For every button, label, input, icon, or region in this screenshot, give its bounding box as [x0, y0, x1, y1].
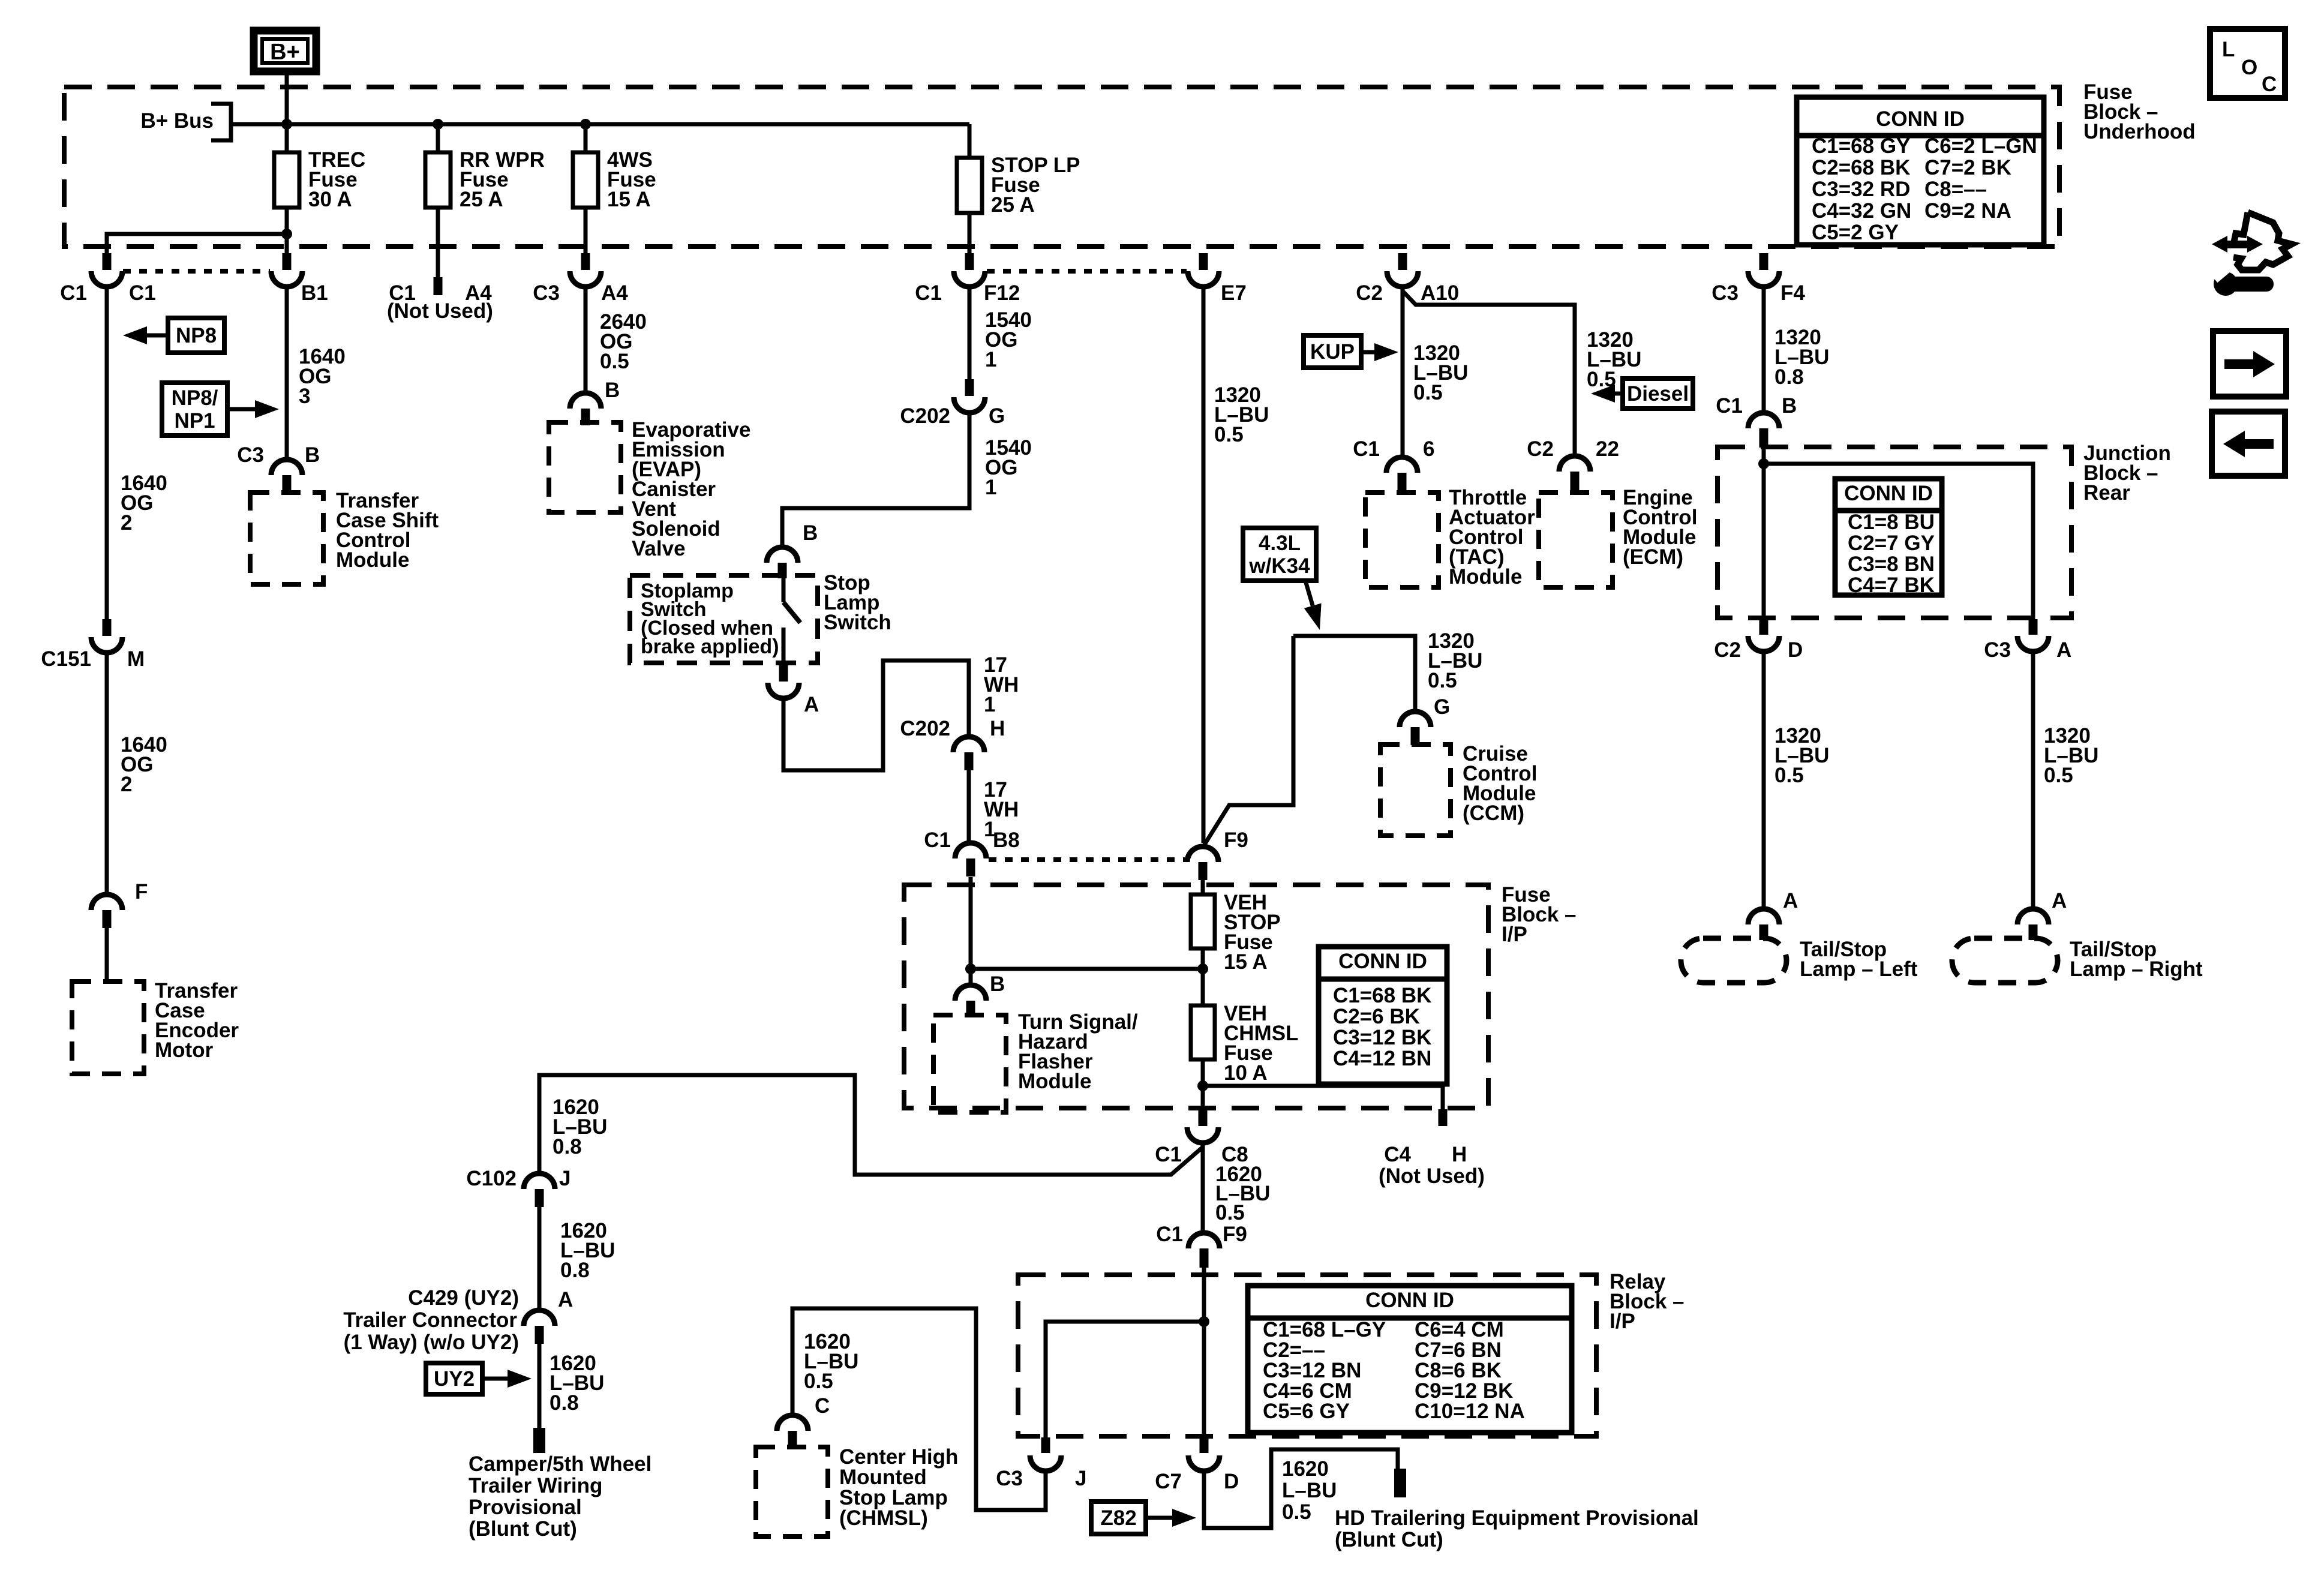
svg-text:B: B — [305, 443, 320, 467]
switch blade — [783, 602, 800, 623]
wire J to CHMSL — [792, 1308, 1046, 1510]
label wire 1620 L-BU 0.8 camper — [550, 1352, 604, 1415]
transfer case shift control module label — [336, 489, 439, 572]
svg-text:C1=68 GY: C1=68 GY — [1812, 134, 1910, 158]
svg-text:1620: 1620 — [1282, 1457, 1329, 1481]
svg-text:F12: F12 — [984, 281, 1020, 305]
svg-text:C2=6 BK: C2=6 BK — [1333, 1005, 1420, 1028]
relay conn id table — [1248, 1286, 1572, 1433]
label C151 M — [41, 647, 145, 671]
transfer case shift control module box — [250, 493, 323, 584]
tail stop lamp right label — [2070, 938, 2203, 981]
svg-text:15 A: 15 A — [607, 188, 651, 211]
svg-text:NP8: NP8 — [176, 324, 217, 347]
fuse VEH STOP 15A — [1191, 894, 1215, 948]
node bus-4WS junction — [580, 119, 591, 130]
connector C3 A4 — [570, 253, 601, 287]
fuse TREC label — [308, 148, 365, 211]
svg-text:D: D — [1788, 638, 1803, 662]
label UY2 box — [426, 1363, 482, 1394]
label Z82 box — [1091, 1502, 1146, 1534]
label NP8/NP1 box — [162, 383, 227, 436]
svg-text:C1: C1 — [60, 281, 87, 305]
svg-text:Lamp – Left: Lamp – Left — [1800, 957, 1918, 981]
svg-text:HD Trailering Equipment Provis: HD Trailering Equipment Provisional — [1335, 1506, 1699, 1530]
connector C1 F12 — [954, 253, 985, 287]
wire A to tail lamp right — [2031, 652, 2035, 910]
svg-text:C1: C1 — [1353, 437, 1380, 461]
wire H to B8 — [967, 770, 971, 843]
wire A4 to EVAP — [584, 287, 588, 393]
label C102 J — [466, 1167, 571, 1190]
svg-text:CONN ID: CONN ID — [1844, 482, 1933, 505]
svg-text:B: B — [1782, 394, 1797, 418]
svg-text:C4=12 BN: C4=12 BN — [1333, 1047, 1431, 1070]
flasher module label — [1018, 1010, 1138, 1093]
svg-text:2: 2 — [121, 511, 132, 535]
label wire 1320 L-BU 0.8 — [1774, 326, 1829, 389]
fuse block underhood dashed box — [64, 87, 2059, 247]
svg-text:C2: C2 — [1714, 638, 1741, 662]
label wire 17 WH 1 lower — [984, 778, 1019, 841]
svg-text:L: L — [2222, 38, 2235, 61]
connector C2 D — [1748, 619, 1779, 652]
label wire 1320 L-BU 0.5 ECM — [1587, 328, 1641, 391]
connector B EVAP — [570, 393, 601, 425]
wire STOP LP fuse to F12 — [968, 213, 972, 253]
svg-text:Valve: Valve — [632, 537, 686, 560]
svg-text:0.8: 0.8 — [560, 1259, 590, 1282]
svg-text:25 A: 25 A — [460, 188, 503, 211]
wire RR WPR fuse top — [436, 124, 440, 152]
arrow NP8 left — [123, 326, 168, 344]
label B stop lamp switch — [803, 521, 818, 545]
EVAP label — [632, 418, 750, 560]
label wire 1320 L-BU 0.5 left lamp — [1774, 724, 1829, 787]
svg-text:C: C — [2262, 73, 2277, 96]
svg-text:KUP: KUP — [1310, 340, 1355, 364]
HD blunt cut stub — [1394, 1469, 1406, 1497]
svg-text:C1: C1 — [924, 828, 951, 852]
svg-text:G: G — [989, 404, 1005, 428]
svg-text:(CCM): (CCM) — [1463, 801, 1524, 825]
svg-text:G: G — [1434, 695, 1450, 719]
wire junction block bus — [1764, 464, 2033, 619]
label C1 A4 not used — [387, 281, 493, 323]
wire relay J branch — [1046, 1322, 1204, 1437]
svg-text:Underhood: Underhood — [2083, 120, 2196, 143]
label A tail right — [2052, 889, 2067, 912]
switch contact upper — [782, 578, 786, 602]
diagonal CCM branch merge — [0, 0, 1, 1]
HD trailering label — [1335, 1506, 1699, 1551]
ECM module label — [1623, 486, 1697, 569]
label wire 1320 L-BU 0.5 CCM — [1428, 629, 1482, 692]
stop lamp switch right label — [824, 571, 891, 634]
wire CHMSL fuse down — [1201, 1059, 1205, 1109]
label KUP box — [1304, 335, 1361, 368]
EVAP canister vent solenoid valve box — [549, 422, 621, 512]
svg-text:B1: B1 — [301, 281, 328, 305]
svg-text:B+ Bus: B+ Bus — [140, 109, 214, 133]
tail stop lamp left box — [1681, 938, 1786, 983]
svg-text:Diesel: Diesel — [1627, 382, 1689, 406]
label C1 B junction — [1716, 394, 1797, 418]
svg-text:C6=2 L–GN: C6=2 L–GN — [1924, 134, 2037, 158]
svg-text:30 A: 30 A — [308, 188, 352, 211]
svg-text:Trailer Wiring: Trailer Wiring — [469, 1474, 602, 1497]
connector F — [91, 894, 122, 928]
svg-text:(1 Way) (w/o UY2): (1 Way) (w/o UY2) — [344, 1331, 519, 1354]
svg-text:I/P: I/P — [1502, 923, 1527, 946]
svg-text:Lamp – Right: Lamp – Right — [2070, 957, 2203, 981]
fuse STOP LP 25A — [957, 158, 982, 213]
svg-text:H: H — [990, 717, 1005, 740]
svg-text:H: H — [1452, 1143, 1467, 1166]
label B flasher — [990, 972, 1005, 996]
connector C3 F4 — [1748, 253, 1779, 287]
label C429 trailer connector — [343, 1286, 573, 1354]
wire B+ feed into fuse block — [285, 71, 289, 152]
wire C8 to relay F9 — [1201, 1143, 1205, 1231]
label F9 fuse block — [1224, 828, 1248, 852]
label C1 F9 relay — [1156, 1223, 1247, 1246]
connector C151 M — [91, 619, 122, 653]
label wire 1640 OG 2 lower — [121, 733, 167, 796]
svg-text:C1: C1 — [915, 281, 942, 305]
label C4 H not used — [1379, 1143, 1485, 1188]
engine control module box — [1539, 493, 1613, 587]
label 4.3L w/K34 box — [1243, 528, 1316, 581]
svg-text:C1: C1 — [1156, 1223, 1183, 1246]
svg-text:CONN ID: CONN ID — [1338, 950, 1427, 973]
B+ Bus bracket — [211, 104, 231, 140]
wire C429 to blunt cut — [538, 1344, 542, 1431]
wire F4 to junction block — [1762, 287, 1766, 413]
svg-text:C3=12 BK: C3=12 BK — [1333, 1026, 1431, 1049]
svg-text:Motor: Motor — [155, 1038, 214, 1062]
arrow 4.3L leader — [1304, 581, 1322, 630]
svg-text:C2: C2 — [1527, 437, 1554, 461]
connector C1 C1 — [91, 253, 122, 287]
arrow NP8/NP1 right — [227, 400, 279, 418]
svg-text:Rear: Rear — [2083, 481, 2130, 505]
connector A stop lamp switch — [768, 665, 799, 698]
svg-text:brake applied): brake applied) — [641, 635, 779, 658]
connector C3 J relay — [1030, 1437, 1061, 1471]
label C1 B8 — [924, 828, 1020, 852]
label C3 B transfer case — [237, 443, 320, 467]
label B EVAP — [605, 379, 620, 402]
connector C3 A — [2017, 619, 2049, 652]
svg-text:B: B — [803, 521, 818, 545]
svg-text:C1: C1 — [1155, 1143, 1182, 1166]
node bus-RRWPR junction — [433, 119, 443, 130]
svg-text:B+: B+ — [270, 40, 300, 65]
svg-text:C2=7 GY: C2=7 GY — [1848, 532, 1935, 555]
connector C7 D relay — [1188, 1437, 1220, 1471]
svg-text:C3: C3 — [996, 1467, 1023, 1490]
svg-text:1: 1 — [985, 476, 996, 499]
label C202 H — [900, 717, 1005, 740]
svg-text:L–BU: L–BU — [1282, 1479, 1337, 1502]
svg-text:O: O — [2241, 56, 2257, 79]
wire 4WS fuse top — [584, 124, 588, 152]
back arrow icon box — [2212, 412, 2285, 476]
svg-text:B: B — [605, 379, 620, 402]
LOC icon box — [2210, 29, 2285, 98]
svg-text:CONN ID: CONN ID — [1876, 107, 1965, 131]
svg-text:Switch: Switch — [824, 611, 891, 634]
label wire 1640 OG 3 — [299, 345, 346, 408]
svg-text:C4: C4 — [1384, 1143, 1411, 1166]
connector C1 B8 — [955, 843, 986, 876]
label wire 1540 OG 1 upper — [985, 308, 1032, 371]
svg-text:C2: C2 — [1356, 281, 1383, 305]
svg-text:1: 1 — [985, 348, 996, 371]
label wire 1620 L-BU 0.8 C102 — [553, 1095, 607, 1158]
svg-text:CONN ID: CONN ID — [1365, 1289, 1454, 1312]
connector C202 G — [954, 379, 985, 413]
relay block IP label — [1610, 1270, 1685, 1333]
svg-text:C202: C202 — [900, 404, 950, 428]
svg-text:Provisional: Provisional — [469, 1496, 582, 1519]
svg-text:C1: C1 — [1716, 394, 1743, 418]
wire VEH STOP to VEH CHMSL — [1201, 948, 1205, 1005]
svg-text:(Not Used): (Not Used) — [1379, 1164, 1485, 1188]
connector C1 F9 relay — [1188, 1233, 1220, 1268]
wire B1 to transfer case module — [285, 287, 289, 460]
svg-text:C4=32 GN: C4=32 GN — [1812, 199, 1911, 223]
node TREC branch junction — [281, 229, 292, 239]
connector C1 F9 fuse block — [1187, 846, 1218, 880]
svg-text:A: A — [558, 1288, 573, 1311]
repair info icon — [2212, 212, 2292, 296]
wire STOP LP fuse drop — [968, 124, 972, 158]
label C3 F4 — [1712, 281, 1805, 305]
label C2 A10 — [1356, 281, 1459, 305]
svg-text:0.5: 0.5 — [2044, 764, 2073, 787]
svg-text:C3: C3 — [237, 443, 264, 467]
cruise control module box — [1380, 745, 1451, 836]
svg-text:I/P: I/P — [1610, 1310, 1635, 1333]
svg-text:F9: F9 — [1224, 828, 1248, 852]
throttle actuator control module box — [1365, 493, 1439, 587]
wire C1 to C151 — [105, 287, 109, 619]
label wire 17 WH 1 upper — [984, 653, 1019, 716]
svg-text:0.5: 0.5 — [1215, 1201, 1245, 1224]
fuse 4WS 15A — [573, 152, 598, 208]
label C2 D — [1714, 638, 1803, 662]
fuse block IP dashed box — [904, 885, 1488, 1108]
label C202 G — [900, 404, 1005, 428]
svg-text:0.8: 0.8 — [550, 1391, 579, 1415]
label A stop lamp switch — [804, 693, 819, 716]
wire A10 to TAC — [1401, 287, 1405, 457]
svg-text:M: M — [127, 647, 145, 671]
label C1 F12 — [915, 281, 1020, 305]
switch contact lower — [782, 628, 786, 665]
connector C2 22 ECM — [1559, 456, 1590, 492]
svg-text:C9=2 NA: C9=2 NA — [1924, 199, 2011, 223]
label F — [135, 880, 148, 903]
svg-text:(Not Used): (Not Used) — [387, 299, 493, 323]
svg-text:A: A — [804, 693, 819, 716]
arrow Z82 right — [1146, 1509, 1196, 1527]
wire F to encoder motor — [105, 928, 109, 983]
svg-text:Module: Module — [1449, 565, 1522, 589]
fuse TREC 30A — [274, 152, 299, 208]
svg-text:F: F — [135, 880, 148, 903]
junction block conn id table — [1835, 479, 1942, 597]
svg-text:0.5: 0.5 — [1428, 669, 1457, 692]
svg-text:A4: A4 — [601, 281, 628, 305]
svg-text:C5=2 GY: C5=2 GY — [1812, 221, 1899, 244]
connector B1 — [271, 253, 302, 287]
label wire 1640 OG 2 upper — [121, 472, 167, 535]
svg-text:(ECM): (ECM) — [1623, 545, 1683, 569]
svg-text:0.5: 0.5 — [1214, 423, 1244, 446]
fuse RR WPR label — [460, 148, 545, 211]
node relay junction — [1199, 1316, 1209, 1327]
wire A10 branch to ECM — [1403, 291, 1575, 456]
svg-text:C4=7 BK: C4=7 BK — [1848, 574, 1935, 597]
label wire 1620 L-BU 0.5 HD — [1282, 1457, 1337, 1524]
svg-text:C10=12 NA: C10=12 NA — [1415, 1400, 1525, 1423]
tail stop lamp right box — [1952, 938, 2058, 983]
svg-text:0.5: 0.5 — [1774, 764, 1804, 787]
camper blunt cut stub — [533, 1428, 545, 1453]
wire TREC branch left — [107, 234, 287, 253]
fuse RR WPR 25A — [425, 152, 451, 208]
wire F9 relay main — [1202, 1268, 1206, 1437]
node junction block — [1758, 458, 1769, 469]
connector C1 C8 — [1187, 1109, 1218, 1143]
svg-text:A10: A10 — [1421, 281, 1459, 305]
node VEH STOP junction — [1197, 963, 1208, 974]
svg-text:C3=8 BN: C3=8 BN — [1848, 553, 1935, 576]
svg-text:E7: E7 — [1221, 281, 1247, 305]
svg-text:0.5: 0.5 — [1282, 1500, 1311, 1524]
svg-text:Module: Module — [1018, 1070, 1091, 1093]
label C1 6 — [1353, 437, 1434, 461]
connector A tail lamp right — [2017, 909, 2049, 940]
label C3 A — [1984, 638, 2071, 662]
svg-text:C8=––: C8=–– — [1924, 178, 1987, 201]
node flasher junction — [965, 963, 976, 974]
label C2 22 — [1527, 437, 1619, 461]
fuse block underhood label — [2083, 80, 2196, 143]
power feed B+ box — [254, 31, 316, 71]
svg-text:C3=32 RD: C3=32 RD — [1812, 178, 1910, 201]
svg-text:D: D — [1224, 1470, 1239, 1493]
turn signal hazard flasher module box — [933, 1015, 1006, 1112]
svg-text:C429 (UY2): C429 (UY2) — [408, 1286, 519, 1310]
wire F9 into fuse block — [1201, 880, 1205, 894]
svg-text:UY2: UY2 — [434, 1367, 475, 1391]
label C1 C8 — [1155, 1143, 1248, 1166]
svg-text:0.5: 0.5 — [804, 1370, 833, 1393]
svg-text:C1: C1 — [129, 281, 156, 305]
wire C102 to C429 — [538, 1207, 542, 1310]
fuse block IP label — [1502, 883, 1577, 946]
wire TREC fuse to B1 — [285, 208, 289, 253]
fuse STOP LP label — [991, 154, 1080, 217]
svg-text:6: 6 — [1423, 437, 1434, 461]
dotted connector row C1-B1 — [123, 269, 270, 274]
connector C1 6 TAC — [1386, 457, 1418, 492]
CHMSL label — [839, 1445, 958, 1530]
center high mounted stop lamp box — [756, 1447, 828, 1536]
wire K34 branch to CCM — [1293, 636, 1415, 711]
svg-text:B: B — [990, 972, 1005, 996]
dotted connector row F12-E7 — [987, 269, 1187, 274]
node C4 H branch junction — [1197, 1080, 1208, 1091]
svg-text:C3: C3 — [533, 281, 560, 305]
svg-text:15 A: 15 A — [1224, 950, 1268, 974]
transfer case encoder motor label — [155, 979, 239, 1062]
label C7 D relay — [1155, 1470, 1239, 1493]
connector C429 A — [524, 1310, 555, 1344]
svg-text:C3: C3 — [1712, 281, 1739, 305]
svg-text:NP1: NP1 — [174, 409, 215, 433]
label wire 1620 L-BU 0.5 C8 — [1215, 1163, 1270, 1224]
svg-text:C7=2 BK: C7=2 BK — [1924, 156, 2011, 179]
label wire 1320 L-BU 0.5 TAC — [1413, 341, 1468, 404]
wire RR WPR not used — [434, 208, 443, 295]
label G CCM — [1434, 695, 1450, 719]
label wire 1620 L-BU 0.8 C429 — [560, 1219, 615, 1282]
svg-text:4.3L: 4.3L — [1259, 532, 1301, 555]
wire F12 to C202 G — [968, 287, 972, 379]
TAC module label — [1449, 486, 1535, 589]
svg-text:10 A: 10 A — [1224, 1061, 1268, 1085]
underhood conn id table — [1797, 97, 2044, 245]
relay block IP dashed box — [1018, 1275, 1596, 1436]
label C CHMSL — [815, 1394, 830, 1418]
label wire 2640 OG 0.5 — [600, 310, 647, 373]
svg-text:0.5: 0.5 — [600, 350, 629, 373]
wire A to C202 H — [783, 661, 969, 770]
connector B stop lamp switch — [767, 547, 798, 578]
stoplamp switch box label — [641, 580, 779, 658]
svg-text:1: 1 — [984, 693, 995, 716]
svg-text:2: 2 — [121, 773, 132, 796]
wire B+ bus — [231, 122, 969, 127]
svg-text:A: A — [2052, 889, 2067, 912]
wire B8 to junction — [969, 877, 973, 985]
svg-text:25 A: 25 A — [991, 193, 1035, 217]
connector C202 H — [953, 737, 984, 770]
label C3 A4 — [533, 281, 628, 305]
label B1 — [301, 281, 328, 305]
node bus-TREC junction — [281, 119, 292, 130]
svg-text:NP8/: NP8/ — [172, 386, 218, 410]
junction block rear label — [2083, 442, 2171, 505]
arrow Diesel left — [1591, 385, 1623, 403]
connector A tail lamp left — [1748, 909, 1779, 940]
svg-text:A: A — [2056, 638, 2071, 662]
label wire 1320 L-BU 0.5 E7 — [1214, 383, 1269, 446]
svg-text:C5=6 GY: C5=6 GY — [1263, 1400, 1350, 1423]
svg-text:Module: Module — [336, 548, 409, 572]
label Diesel box — [1623, 379, 1693, 409]
svg-text:Trailer Connector: Trailer Connector — [343, 1308, 517, 1332]
svg-text:F9: F9 — [1223, 1223, 1247, 1246]
svg-text:0.5: 0.5 — [1413, 381, 1443, 404]
fuse VEH STOP label — [1224, 891, 1281, 974]
svg-text:A: A — [1783, 889, 1798, 912]
